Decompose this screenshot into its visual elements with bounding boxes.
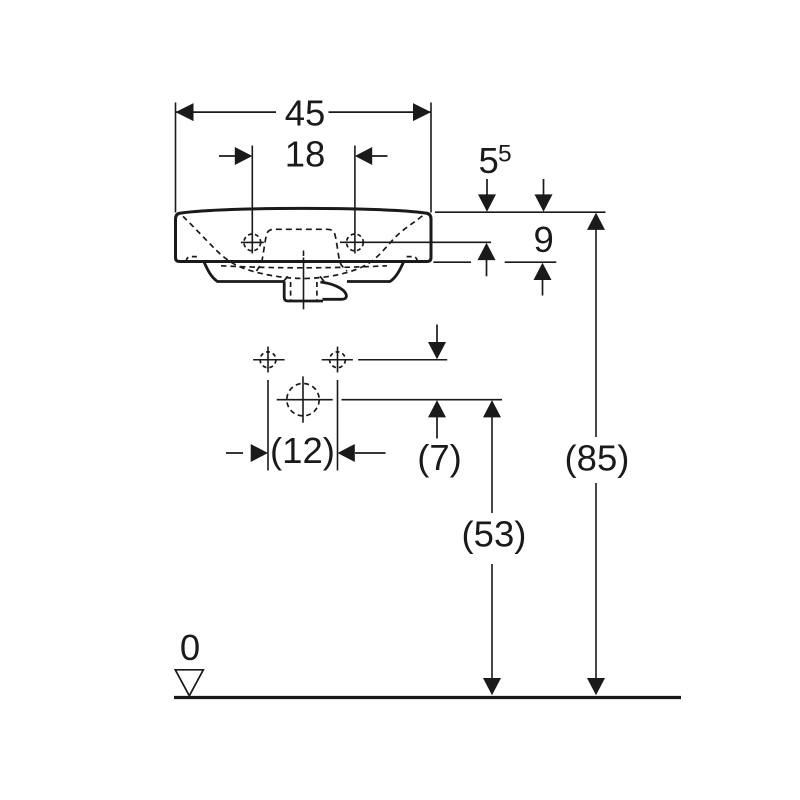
- tap hole left dashed circle: [244, 234, 261, 251]
- svg-text:18: 18: [285, 134, 326, 175]
- svg-text:(12): (12): [270, 430, 335, 471]
- floor datum triangle: [175, 670, 203, 696]
- dimension 53 top arrow: [483, 400, 501, 417]
- tap hole right dashed circle: [347, 234, 364, 251]
- dimension 12 arrow left with tail: [226, 452, 243, 454]
- dimension 9 top arrow: [543, 179, 545, 196]
- drain hole dashed circle: [287, 383, 319, 415]
- washbasin underside taper right: [347, 262, 404, 282]
- dimension 7 bottom arrow: [428, 400, 446, 417]
- dimension 45 line left segment: [176, 111, 276, 113]
- dimension 12 extension line right: [337, 380, 339, 471]
- trap corner tick right: [320, 276, 324, 281]
- dimension 85 vertical line lower: [595, 483, 597, 679]
- dimension 53 bottom arrow: [483, 678, 501, 695]
- fixing hole left cross line: [253, 359, 285, 361]
- fixing hole left dashed circle: [260, 352, 276, 368]
- floor line: [174, 696, 681, 699]
- fixing hole right dashed circle: [330, 352, 346, 368]
- dimension 45 extension line right: [430, 103, 432, 213]
- svg-text:5: 5: [479, 140, 499, 181]
- trap centre line: [303, 258, 305, 310]
- dimension 45 arrow right: [413, 103, 431, 121]
- tap hole height reference line: [340, 241, 491, 243]
- drain hole cross vertical: [302, 376, 304, 422]
- dimension 18 extension line right: [354, 146, 356, 254]
- washbasin underside taper left: [204, 262, 284, 282]
- svg-text:(7): (7): [417, 437, 462, 478]
- rim top reference line: [435, 211, 606, 213]
- dimension 9 bottom arrow: [534, 263, 552, 280]
- drain trap box: [284, 282, 323, 302]
- dimension 5.5 top arrow: [486, 179, 488, 196]
- dimension 18 arrow right with tail: [371, 155, 388, 157]
- bowl far edge hidden line dashed: [221, 266, 387, 268]
- tap platform dashed: [257, 229, 348, 271]
- drain hole cross horizontal: [277, 399, 333, 401]
- dimension 85 vertical line upper: [595, 229, 597, 437]
- dimension 12 arrow right with tail: [355, 452, 386, 454]
- svg-text:5: 5: [498, 141, 512, 168]
- dimension 85 top arrow: [587, 213, 605, 230]
- drain outlet elbow: [320, 282, 346, 299]
- fixing hole right cross line: [322, 359, 353, 361]
- rim bottom reference line segment 1: [433, 261, 471, 263]
- svg-text:45: 45: [285, 92, 326, 133]
- svg-text:(53): (53): [462, 514, 527, 555]
- tap hole left cross line: [241, 241, 264, 243]
- dimension 45 arrow left: [176, 103, 194, 121]
- svg-text:(85): (85): [565, 438, 630, 479]
- dimension 18 arrow left with tail: [219, 155, 236, 157]
- dimension 53 vertical line upper: [491, 417, 493, 514]
- washbasin outer rim outline: [176, 208, 432, 261]
- drain height reference line: [342, 399, 503, 401]
- fixing hole right axis upper: [337, 347, 339, 373]
- dimension 45 line right segment: [329, 111, 432, 113]
- svg-text:0: 0: [180, 627, 200, 668]
- bowl hidden outline dashed: [183, 216, 423, 279]
- trap corner tick left: [284, 276, 288, 281]
- dimension 85 bottom arrow: [587, 678, 605, 695]
- svg-text:9: 9: [533, 219, 553, 260]
- hidden fixing slot left dashed: [186, 257, 199, 262]
- dimension 53 vertical line lower: [491, 564, 493, 679]
- dimension 7 top arrow: [436, 325, 438, 344]
- dimension 18 extension line left: [251, 146, 253, 254]
- centre line dash above trap: [303, 251, 305, 257]
- dimension 45 extension line left: [175, 103, 177, 213]
- rim bottom reference line segment 2: [505, 261, 557, 263]
- trap inner dashed pipe right: [316, 282, 318, 300]
- trap inner dashed pipe left: [290, 282, 292, 300]
- fixing holes height reference line: [358, 359, 447, 361]
- hidden fixing slot right dashed: [404, 257, 417, 262]
- dimension 5.5 bottom arrow: [478, 243, 496, 260]
- fixing hole left axis upper: [267, 347, 269, 373]
- dimension 12 extension line left: [267, 380, 269, 471]
